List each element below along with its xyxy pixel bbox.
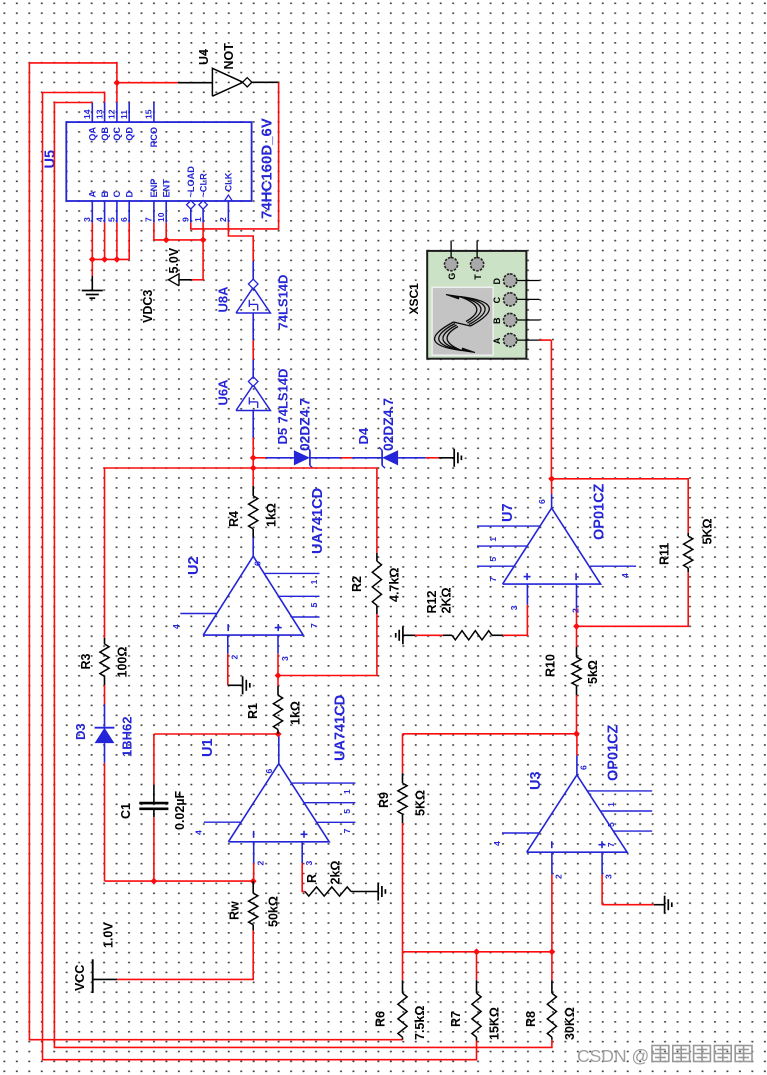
svg-text:7.5kΩ: 7.5kΩ xyxy=(413,1006,427,1040)
svg-text:R1: R1 xyxy=(246,703,260,719)
svg-text:1: 1 xyxy=(309,579,319,584)
U5 pin 15 RCO xyxy=(153,103,155,123)
svg-text:1BH62: 1BH62 xyxy=(120,717,135,757)
U5 pin 6 D xyxy=(128,201,130,223)
power VCC 1.0V xyxy=(92,959,94,993)
XSC1 terminal A xyxy=(504,333,517,346)
XSC1 waveform curves xyxy=(460,297,490,327)
svg-text:U4: U4 xyxy=(197,49,211,65)
node R8 junction xyxy=(549,948,556,955)
U2 pin 4 stub xyxy=(180,613,217,615)
XSC1 terminal T xyxy=(471,258,484,271)
node U1 output junction xyxy=(275,731,282,738)
op-amp U2 UA741CD xyxy=(203,556,303,635)
svg-text:R11: R11 xyxy=(658,543,672,565)
ground R5 net xyxy=(377,883,379,901)
node U2 pin3 junction xyxy=(275,672,282,679)
svg-text:14: 14 xyxy=(82,109,92,119)
wire ENP ENT ~CLR to 5V xyxy=(154,223,203,240)
XSC1 screen xyxy=(432,287,493,355)
svg-text:A: A xyxy=(88,191,98,198)
U1 pin 4 stub xyxy=(204,821,242,823)
svg-text:CSDN @: CSDN @ xyxy=(577,1046,649,1066)
svg-text:02DZ4.7: 02DZ4.7 xyxy=(298,398,313,451)
U5 pin 3 A xyxy=(91,201,93,223)
svg-text:R6: R6 xyxy=(374,1011,388,1027)
wire zener chain top xyxy=(253,457,266,459)
wire C1 right xyxy=(153,785,155,803)
U5 pin 11 QD xyxy=(128,103,130,123)
node R4-R2 junction xyxy=(250,465,257,472)
wire R9 left to rail xyxy=(402,823,404,952)
U5 pin 2 CLK xyxy=(227,201,229,223)
svg-text:Rw: Rw xyxy=(228,901,242,920)
svg-text:02DZ4.7: 02DZ4.7 xyxy=(381,398,396,451)
svg-text:1kΩ: 1kΩ xyxy=(265,503,279,527)
wire U3 pin3 to ground xyxy=(601,875,603,905)
ground zener net xyxy=(453,449,455,467)
svg-text:7: 7 xyxy=(144,217,154,222)
svg-text:4: 4 xyxy=(194,830,204,835)
svg-text:U1: U1 xyxy=(200,738,216,757)
svg-text:1kΩ: 1kΩ xyxy=(289,701,303,725)
svg-text:R10: R10 xyxy=(544,654,558,677)
U5 pin 9 ~LOAD xyxy=(190,201,192,223)
svg-text:3: 3 xyxy=(509,605,519,610)
U1 pin 6 output xyxy=(278,734,280,764)
XSC1 terminal G xyxy=(445,258,458,271)
svg-text:U5: U5 xyxy=(43,150,59,169)
svg-text:6: 6 xyxy=(264,769,274,774)
svg-text:D: D xyxy=(124,191,134,198)
svg-text:OP01CZ: OP01CZ xyxy=(606,724,622,781)
svg-text:74HC160D_6V: 74HC160D_6V xyxy=(259,118,276,219)
oscilloscope XSC1 body xyxy=(427,251,526,359)
resistor R12 xyxy=(452,631,492,640)
svg-text:5: 5 xyxy=(309,602,319,607)
U3 aux pins 1 5 7 xyxy=(587,790,652,792)
wire NOT output to ~LOAD xyxy=(251,81,279,83)
svg-text:D3: D3 xyxy=(73,723,88,740)
node B junction xyxy=(101,256,108,263)
svg-text:U3: U3 xyxy=(528,771,544,790)
diode D3 1BH62 xyxy=(95,728,115,743)
U1 pin 3 input xyxy=(301,842,303,863)
resistor R6 7.5k xyxy=(402,1037,404,1040)
svg-text:1: 1 xyxy=(342,789,352,794)
U3 pin 3 input xyxy=(601,852,603,874)
svg-text:3: 3 xyxy=(280,656,290,661)
wire QC feedback loop xyxy=(29,63,402,1040)
svg-text:5: 5 xyxy=(488,557,498,562)
wire R2 to U2 pin3 xyxy=(278,614,377,676)
power VDC3 5V arrow xyxy=(169,274,180,286)
node zener junction xyxy=(250,454,257,461)
node C1 junction xyxy=(151,878,158,885)
svg-text:~LOAD: ~LOAD xyxy=(186,166,196,198)
U5 pin 1 ~CLR xyxy=(202,201,204,223)
resistor R2 xyxy=(376,553,378,561)
svg-text:R3: R3 xyxy=(79,653,93,669)
svg-text:5kΩ: 5kΩ xyxy=(586,660,600,684)
wire D3 to loop xyxy=(104,743,106,763)
svg-text:5: 5 xyxy=(107,217,117,222)
node U3 output junction xyxy=(573,730,580,737)
wire R4 to U6A input xyxy=(252,438,254,486)
XSC1 terminal D xyxy=(504,274,517,287)
svg-text:CLK: CLK xyxy=(224,172,234,191)
svg-text:0.02µF: 0.02µF xyxy=(173,790,187,830)
svg-text:QC: QC xyxy=(112,127,122,141)
svg-text:U2: U2 xyxy=(186,556,202,575)
svg-text:OP01CZ: OP01CZ xyxy=(592,483,608,540)
svg-text:100Ω: 100Ω xyxy=(116,647,130,678)
resistor R8 30k xyxy=(551,1037,553,1040)
svg-text:A: A xyxy=(492,337,502,344)
wire NOT input xyxy=(117,82,178,84)
svg-text:7: 7 xyxy=(606,842,616,847)
wire U7 out to R11 xyxy=(552,479,689,533)
wire U2 pin2 to ground xyxy=(228,684,243,686)
wire C1 left xyxy=(153,817,155,881)
svg-text:5KΩ: 5KΩ xyxy=(414,790,428,816)
resistor R9 xyxy=(402,734,404,774)
wire ground to R12 xyxy=(415,634,443,636)
node ~CLR junction xyxy=(200,237,207,244)
resistor R11 xyxy=(684,536,693,568)
svg-text:R12: R12 xyxy=(425,591,439,614)
wire U2 output pin 6 xyxy=(252,538,254,557)
svg-text:R: R xyxy=(305,874,319,883)
U5 pin 10 ENT xyxy=(165,201,167,223)
op-amp U7 OP01CZ xyxy=(503,508,601,584)
resistor R1 xyxy=(277,730,279,735)
svg-text:RCO: RCO xyxy=(149,127,159,147)
node A junction xyxy=(89,256,96,263)
inverter U6A 74LS14D xyxy=(236,385,270,411)
svg-text:QD: QD xyxy=(124,127,134,141)
U5 ~LOAD bubble xyxy=(187,201,195,209)
node Rw junction xyxy=(250,878,257,885)
svg-text:7: 7 xyxy=(309,623,319,628)
U5 ~CLR bubble xyxy=(199,201,207,209)
svg-text:U6A: U6A xyxy=(216,379,231,406)
U5 CLK edge marker xyxy=(224,195,232,201)
svg-text:3: 3 xyxy=(604,874,614,879)
op-amp U3 OP01CZ xyxy=(527,775,627,852)
svg-text:4.7kΩ: 4.7kΩ xyxy=(388,568,402,602)
wire left loop vertical xyxy=(105,880,254,882)
svg-text:C: C xyxy=(112,191,122,198)
svg-text:12: 12 xyxy=(107,109,117,119)
U2 pin 2 input xyxy=(227,635,229,654)
svg-text:D4: D4 xyxy=(356,427,371,444)
svg-text:10: 10 xyxy=(156,212,166,222)
wire R2 feedback rail xyxy=(105,468,377,638)
svg-text:UA741CD: UA741CD xyxy=(310,488,326,554)
U2 aux pins 1 5 7 xyxy=(264,572,319,574)
wire U3 out to R10 xyxy=(576,695,578,734)
svg-text:VCC: VCC xyxy=(73,965,87,991)
U5 pin 4 B xyxy=(104,201,106,223)
U7 pin 4 stub xyxy=(590,565,636,567)
ground R12 net (flipped) xyxy=(402,626,404,644)
svg-text:13: 13 xyxy=(94,109,104,119)
svg-text:~CLR: ~CLR xyxy=(198,173,208,198)
U5 pin 14 QA xyxy=(91,103,93,123)
svg-text:2KΩ: 2KΩ xyxy=(440,587,454,613)
svg-text:9: 9 xyxy=(181,217,191,222)
svg-text:XSC1: XSC1 xyxy=(407,283,421,315)
wire zener to ground xyxy=(398,457,426,459)
svg-text:3: 3 xyxy=(304,861,314,866)
svg-text:5: 5 xyxy=(606,822,616,827)
svg-text:2: 2 xyxy=(218,217,228,222)
XSC1 terminal C xyxy=(504,293,517,306)
svg-text:11: 11 xyxy=(119,110,129,119)
node U7 pin3 junction xyxy=(573,623,580,630)
wire A B C D to ground xyxy=(91,223,93,260)
svg-text:74LS14D: 74LS14D xyxy=(276,275,291,330)
svg-text:1: 1 xyxy=(193,217,203,222)
wire C1 to U1 output xyxy=(154,733,278,735)
svg-text:G: G xyxy=(447,273,457,280)
svg-text:4: 4 xyxy=(492,841,502,846)
wire scope A to U7 output xyxy=(540,339,552,341)
svg-text:2: 2 xyxy=(230,655,240,660)
capacitor C1 0.02uF xyxy=(139,807,168,810)
svg-text:4: 4 xyxy=(94,217,104,222)
wire R1 to U2 pin3 xyxy=(277,676,279,687)
zener diode D4 xyxy=(382,450,398,465)
wire R3 to D3 xyxy=(104,685,106,705)
svg-text:U7: U7 xyxy=(500,503,516,522)
resistor R4 xyxy=(249,496,258,529)
wire QA feedback loop xyxy=(54,103,552,1048)
U2 pin 3 input xyxy=(277,635,279,654)
svg-text:UA741CD: UA741CD xyxy=(333,695,349,761)
inverter U8A 74LS14D xyxy=(236,288,270,314)
svg-text:4: 4 xyxy=(620,573,630,578)
svg-text:2: 2 xyxy=(256,861,266,866)
wire R11 to U7 pin3 xyxy=(577,572,689,626)
svg-text:C1: C1 xyxy=(119,803,133,819)
svg-text:B: B xyxy=(100,191,110,198)
svg-text:D: D xyxy=(492,278,502,285)
wire between zeners xyxy=(310,457,341,459)
svg-text:B: B xyxy=(492,317,502,324)
U7 pin 6 output xyxy=(551,494,553,508)
svg-text:6: 6 xyxy=(119,217,129,222)
wire divider rail xyxy=(403,951,552,953)
svg-text:74LS14D: 74LS14D xyxy=(276,369,291,424)
ground A-D net xyxy=(82,290,103,292)
U3 pin 2 input xyxy=(551,852,553,874)
svg-text:50kΩ: 50kΩ xyxy=(267,896,281,927)
svg-text:R8: R8 xyxy=(524,1011,538,1027)
wire R12 to U7 pin2 xyxy=(503,605,527,636)
wire U1 pin3 to R5 xyxy=(302,863,305,892)
svg-text:30KΩ: 30KΩ xyxy=(563,1007,577,1040)
node C junction xyxy=(114,256,121,263)
svg-text:7: 7 xyxy=(342,828,352,833)
inverter U4 NOT xyxy=(212,68,243,96)
counter U5 74HC160D_6V body xyxy=(66,122,251,201)
svg-text:QB: QB xyxy=(100,127,110,141)
svg-text:1.0V: 1.0V xyxy=(102,922,116,948)
svg-text:ENT: ENT xyxy=(161,179,171,198)
svg-text:15: 15 xyxy=(144,109,154,119)
svg-text:6: 6 xyxy=(537,499,547,504)
XSC1 terminal B xyxy=(504,313,517,326)
node R7 junction xyxy=(473,948,480,955)
node QC-NOT junction xyxy=(114,79,121,86)
svg-text:VDC3: VDC3 xyxy=(141,290,155,323)
svg-text:6: 6 xyxy=(579,765,589,770)
svg-text:D5: D5 xyxy=(275,428,290,445)
zener diode D5 xyxy=(294,450,310,465)
U5 pin 13 QB xyxy=(104,103,106,123)
svg-text:3: 3 xyxy=(82,217,92,222)
resistor R10 xyxy=(572,657,581,685)
svg-text:7: 7 xyxy=(488,577,498,582)
svg-text:4: 4 xyxy=(171,624,181,629)
U7 pin 3 input xyxy=(576,584,578,608)
svg-text:2: 2 xyxy=(554,874,564,879)
U7 aux pins 1 5 7 xyxy=(477,525,540,527)
svg-text:R4: R4 xyxy=(227,511,241,527)
wire R9 top xyxy=(403,733,577,735)
svg-text:1: 1 xyxy=(488,537,498,542)
resistor Rw xyxy=(252,925,254,931)
svg-text:5.0V: 5.0V xyxy=(167,247,181,273)
op-amp U1 UA741CD xyxy=(228,764,329,842)
ground U3 pin3 xyxy=(664,896,666,914)
ground U2 pin2 xyxy=(242,676,244,694)
svg-text:1: 1 xyxy=(606,802,616,807)
svg-text:R7: R7 xyxy=(449,1011,463,1027)
svg-text:C: C xyxy=(492,296,502,303)
svg-text:5KΩ: 5KΩ xyxy=(701,518,715,544)
U3 pin 6 output xyxy=(576,755,578,775)
wire U6A to U8A xyxy=(252,360,254,379)
svg-text:R9: R9 xyxy=(377,792,391,808)
U3 pin 4 stub xyxy=(502,832,540,834)
wire QB feedback loop xyxy=(43,93,477,1060)
U5 pin 12 QC xyxy=(116,103,118,123)
svg-text:R2: R2 xyxy=(350,576,364,592)
resistor R7 15k xyxy=(476,1037,478,1040)
svg-text:T: T xyxy=(473,274,483,280)
U5 pin 5 C xyxy=(116,201,118,223)
resistor R5 xyxy=(305,887,351,896)
svg-text:NOT: NOT xyxy=(222,43,236,70)
U1 aux pins 1 5 7 xyxy=(291,782,355,784)
wire U8A output to CLK xyxy=(228,223,253,261)
wire VCC to Rw xyxy=(117,930,253,979)
wire U3 pin2 to R8 rail xyxy=(551,875,553,952)
svg-text:ENP: ENP xyxy=(149,179,159,198)
svg-text:QA: QA xyxy=(88,127,98,141)
U5 pin 7 ENP xyxy=(153,201,155,223)
U1 pin 2 input xyxy=(253,842,255,863)
svg-text:5: 5 xyxy=(342,809,352,814)
svg-text:2: 2 xyxy=(571,608,581,613)
node U7 output junction xyxy=(548,475,555,482)
svg-text:U8A: U8A xyxy=(216,286,231,313)
resistor R3 xyxy=(104,638,106,644)
svg-text:15KΩ: 15KΩ xyxy=(488,1007,502,1040)
svg-text:2kΩ: 2kΩ xyxy=(329,861,343,885)
node ENT junction xyxy=(163,237,170,244)
